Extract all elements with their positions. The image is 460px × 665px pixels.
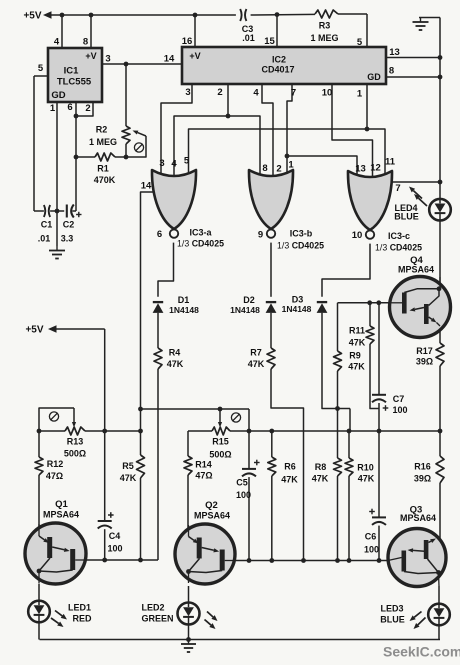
svg-text:7: 7 — [291, 87, 296, 98]
svg-text:8: 8 — [83, 36, 88, 47]
svg-text:47K: 47K — [120, 473, 137, 483]
svg-text:Q2: Q2 — [205, 500, 218, 511]
svg-text:.01: .01 — [242, 33, 255, 43]
svg-text:MPSA64: MPSA64 — [194, 511, 230, 521]
svg-text:47K: 47K — [348, 362, 365, 372]
svg-text:LED2: LED2 — [141, 603, 164, 613]
svg-text:BLUE: BLUE — [394, 212, 419, 222]
svg-text:13: 13 — [355, 163, 366, 174]
svg-text:MPSA64: MPSA64 — [398, 265, 434, 275]
svg-text:4: 4 — [171, 158, 177, 169]
svg-text:2: 2 — [217, 87, 222, 98]
svg-text:RED: RED — [72, 614, 92, 624]
svg-text:14: 14 — [164, 53, 175, 64]
svg-text:11: 11 — [385, 156, 396, 167]
svg-text:2: 2 — [276, 163, 281, 174]
svg-text:1/3 CD4025: 1/3 CD4025 — [277, 241, 324, 251]
svg-text:47K: 47K — [281, 475, 298, 485]
svg-text:1: 1 — [50, 103, 56, 114]
svg-text:470K: 470K — [94, 175, 116, 185]
svg-text:GD: GD — [367, 72, 381, 82]
svg-text:14: 14 — [141, 180, 152, 191]
svg-text:47K: 47K — [248, 359, 265, 369]
svg-text:7: 7 — [395, 183, 400, 194]
svg-text:39Ω: 39Ω — [414, 474, 431, 484]
svg-text:1 MEG: 1 MEG — [310, 33, 338, 43]
svg-text:8: 8 — [389, 65, 394, 76]
svg-text:1/3 CD4025: 1/3 CD4025 — [177, 239, 224, 249]
svg-text:D2: D2 — [243, 295, 255, 305]
svg-text:500Ω: 500Ω — [64, 449, 86, 459]
svg-text:16: 16 — [182, 36, 193, 47]
svg-text:CD4017: CD4017 — [261, 65, 294, 75]
svg-text:IC1: IC1 — [64, 65, 80, 76]
svg-text:1/3 CD4025: 1/3 CD4025 — [375, 243, 422, 253]
svg-text:Q1: Q1 — [55, 499, 68, 510]
svg-text:1 MEG: 1 MEG — [89, 137, 117, 147]
svg-text:+V: +V — [189, 51, 200, 61]
svg-text:R5: R5 — [122, 461, 134, 471]
svg-text:R14: R14 — [195, 460, 212, 470]
svg-text:IC3-a: IC3-a — [189, 228, 212, 238]
svg-text:3.3: 3.3 — [61, 234, 74, 244]
svg-text:R15: R15 — [212, 437, 229, 447]
svg-text:R13: R13 — [67, 437, 84, 447]
svg-text:9: 9 — [258, 229, 263, 240]
svg-text:R17: R17 — [416, 346, 433, 356]
svg-text:4: 4 — [253, 87, 259, 98]
svg-text:LED3: LED3 — [380, 604, 403, 614]
svg-text:3: 3 — [105, 53, 110, 64]
svg-text:12: 12 — [370, 162, 381, 173]
svg-text:MPSA64: MPSA64 — [400, 513, 436, 523]
svg-text:100: 100 — [392, 405, 407, 415]
svg-text:47K: 47K — [167, 359, 184, 369]
svg-text:GREEN: GREEN — [141, 614, 173, 624]
svg-text:15: 15 — [264, 36, 275, 47]
svg-text:GD: GD — [51, 90, 65, 101]
svg-text:1: 1 — [357, 88, 363, 99]
svg-text:R3: R3 — [319, 21, 331, 31]
svg-text:47K: 47K — [349, 338, 366, 348]
svg-text:5: 5 — [357, 37, 363, 48]
svg-text:500Ω: 500Ω — [209, 450, 231, 460]
svg-text:6: 6 — [67, 102, 72, 113]
svg-text:SeekIC.com: SeekIC.com — [383, 644, 460, 660]
svg-text:+5V: +5V — [23, 11, 41, 22]
svg-text:13: 13 — [389, 47, 400, 58]
svg-text:R16: R16 — [414, 462, 431, 472]
svg-text:1N4148: 1N4148 — [169, 305, 199, 315]
svg-text:R9: R9 — [349, 351, 361, 361]
svg-text:3: 3 — [185, 87, 190, 98]
svg-text:LED1: LED1 — [68, 603, 91, 613]
svg-text:C7: C7 — [393, 394, 405, 404]
svg-text:1N4148: 1N4148 — [282, 304, 312, 314]
svg-text:10: 10 — [352, 230, 363, 241]
svg-text:47K: 47K — [358, 474, 375, 484]
svg-text:C5: C5 — [236, 478, 248, 488]
svg-text:47Ω: 47Ω — [46, 471, 63, 481]
svg-text:1N4148: 1N4148 — [230, 305, 260, 315]
svg-text:MPSA64: MPSA64 — [43, 510, 79, 520]
svg-text:39Ω: 39Ω — [416, 357, 433, 367]
svg-text:5: 5 — [38, 63, 44, 74]
svg-text:5: 5 — [184, 155, 190, 166]
svg-text:IC2: IC2 — [272, 55, 286, 65]
svg-text:100: 100 — [364, 545, 379, 555]
svg-text:10: 10 — [322, 87, 333, 98]
svg-text:R6: R6 — [284, 462, 296, 472]
svg-text:R4: R4 — [169, 348, 181, 358]
svg-text:TLC555: TLC555 — [57, 76, 92, 87]
svg-text:D1: D1 — [178, 295, 190, 305]
svg-text:R10: R10 — [357, 463, 374, 473]
svg-text:3: 3 — [159, 158, 164, 169]
svg-text:1: 1 — [288, 159, 294, 170]
svg-text:R1: R1 — [97, 164, 109, 174]
svg-text:C2: C2 — [63, 220, 75, 230]
svg-text:R8: R8 — [315, 462, 327, 472]
svg-text:R12: R12 — [47, 459, 64, 469]
svg-text:R7: R7 — [250, 348, 262, 358]
svg-text:+V: +V — [85, 51, 96, 61]
svg-text:BLUE: BLUE — [380, 615, 405, 625]
svg-text:+5V: +5V — [25, 325, 43, 336]
svg-text:.01: .01 — [38, 234, 51, 244]
svg-text:C4: C4 — [109, 531, 121, 541]
svg-text:IC3-c: IC3-c — [388, 231, 410, 241]
svg-text:4: 4 — [54, 36, 60, 47]
svg-text:47Ω: 47Ω — [195, 471, 212, 481]
svg-text:IC3-b: IC3-b — [290, 229, 313, 239]
svg-text:6: 6 — [157, 229, 162, 240]
svg-text:C6: C6 — [365, 532, 377, 542]
svg-text:C1: C1 — [41, 220, 53, 230]
svg-text:100: 100 — [236, 490, 251, 500]
svg-text:R11: R11 — [349, 326, 365, 336]
svg-text:R2: R2 — [96, 125, 108, 135]
svg-text:100: 100 — [107, 544, 122, 554]
svg-text:8: 8 — [262, 163, 267, 174]
svg-text:47K: 47K — [312, 474, 329, 484]
svg-text:2: 2 — [85, 103, 90, 114]
